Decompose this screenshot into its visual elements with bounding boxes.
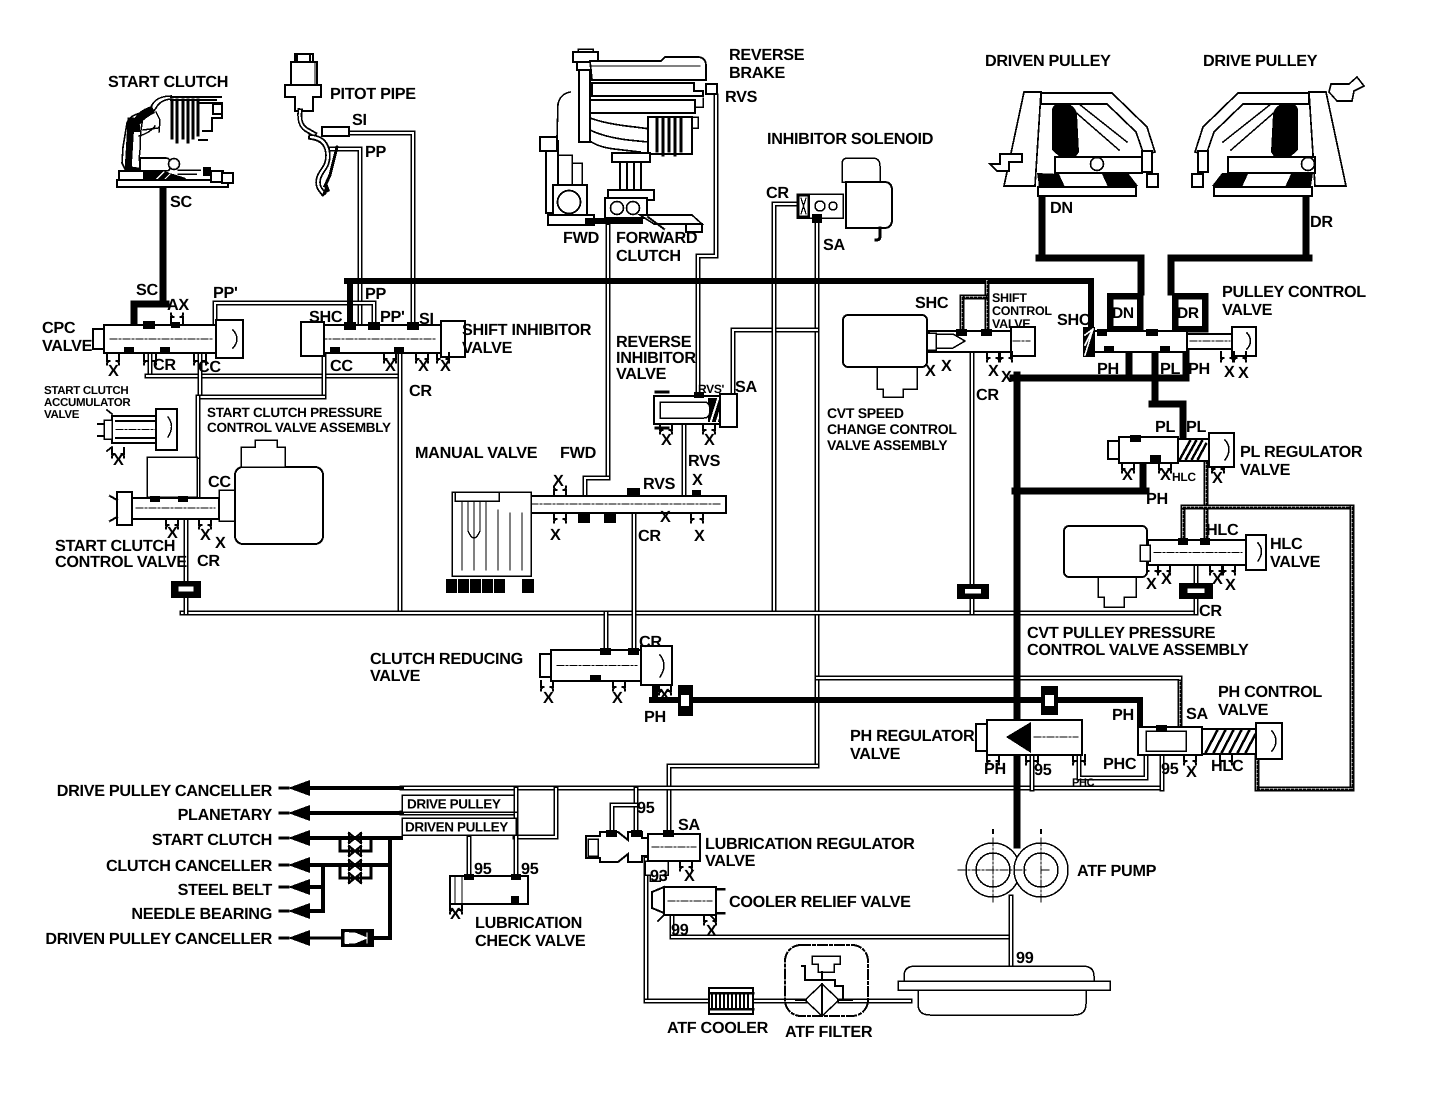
svg-text:SHIFT: SHIFT bbox=[992, 291, 1027, 305]
svg-text:CVT PULLEY PRESSURE: CVT PULLEY PRESSURE bbox=[1027, 624, 1216, 642]
svg-text:X: X bbox=[1225, 576, 1236, 594]
valve CPC valve bbox=[93, 314, 243, 365]
svg-text:PLANETARY: PLANETARY bbox=[178, 806, 273, 824]
svg-text:SA: SA bbox=[678, 816, 700, 834]
svg-text:HLC: HLC bbox=[1270, 535, 1303, 553]
svg-text:SA: SA bbox=[1186, 705, 1208, 723]
svg-text:MANUAL VALVE: MANUAL VALVE bbox=[415, 444, 538, 462]
pipe CR from start clutch control valve bbox=[183, 519, 188, 581]
svg-text:VALVE: VALVE bbox=[1218, 701, 1269, 719]
svg-text:X: X bbox=[553, 472, 564, 490]
svg-text:PH REGULATOR: PH REGULATOR bbox=[850, 727, 975, 745]
pipe HLC right side down bbox=[1349, 507, 1354, 789]
svg-text:RVS: RVS bbox=[725, 88, 758, 106]
svg-text:PH: PH bbox=[984, 760, 1006, 778]
pipe PL thick down bbox=[1152, 352, 1159, 404]
valve shift control valve bbox=[929, 327, 1035, 362]
svg-text:CR: CR bbox=[638, 527, 661, 545]
svg-text:VALVE: VALVE bbox=[850, 745, 901, 763]
pipe SA branch to PH control valve bbox=[817, 678, 1180, 725]
svg-text:X: X bbox=[692, 471, 703, 489]
component PITOT PIPE drawing bbox=[285, 54, 349, 195]
pipe DR to pulley control valve bbox=[1171, 258, 1309, 292]
hatched section PL regulator valve bbox=[1178, 433, 1234, 467]
svg-text:ATF COOLER: ATF COOLER bbox=[667, 1019, 769, 1037]
pipe PL jog into PL regulator valve bbox=[1152, 404, 1183, 437]
pipe SC elbow into CPC valve bbox=[134, 304, 166, 322]
svg-text:NEEDLE BEARING: NEEDLE BEARING bbox=[131, 905, 272, 923]
pipe ATF cooler to ATF filter bbox=[752, 998, 806, 1003]
valve LUBRICATION CHECK VALVE bbox=[450, 874, 528, 904]
pipe SHC branch bbox=[962, 294, 985, 299]
component ATF COOLER bbox=[709, 988, 753, 1014]
arrow line DRIVEN PULLEY CANCELLER bbox=[280, 930, 341, 946]
boxed label DRIVEN PULLEY bbox=[402, 818, 516, 835]
svg-text:START CLUTCH: START CLUTCH bbox=[44, 385, 128, 397]
svg-text:CC: CC bbox=[208, 473, 231, 491]
component ATF FILTER bbox=[785, 945, 868, 1016]
svg-text:X: X bbox=[704, 431, 715, 449]
pipe CC down bbox=[195, 397, 200, 460]
svg-text:DRIVE PULLEY: DRIVE PULLEY bbox=[407, 797, 501, 812]
svg-text:START CLUTCH: START CLUTCH bbox=[108, 73, 228, 91]
svg-text:CR: CR bbox=[1199, 602, 1222, 620]
svg-text:VALVE ASSEMBLY: VALVE ASSEMBLY bbox=[827, 437, 948, 453]
svg-text:VALVE: VALVE bbox=[616, 365, 667, 383]
solenoid CVT speed change control bbox=[843, 315, 936, 397]
pipe CR from shift control valve bbox=[969, 352, 974, 584]
svg-text:DR: DR bbox=[1310, 213, 1333, 231]
svg-text:X: X bbox=[925, 362, 936, 380]
svg-text:PL: PL bbox=[1186, 418, 1206, 436]
pipe PH thick bus bbox=[1013, 375, 1186, 382]
pipe SA to lubrication regulator valve bbox=[669, 766, 817, 830]
pipe 99 horizontal run bbox=[672, 934, 1010, 939]
svg-text:X: X bbox=[1001, 368, 1012, 386]
svg-text:VALVE: VALVE bbox=[705, 852, 756, 870]
svg-text:X: X bbox=[1224, 363, 1235, 381]
svg-text:LUBRICATION REGULATOR: LUBRICATION REGULATOR bbox=[705, 835, 915, 853]
node DR box bbox=[1175, 296, 1205, 329]
orifice CR shift control valve bbox=[957, 584, 989, 599]
component ATF strainer and oil pan bbox=[898, 966, 1110, 1015]
svg-text:X: X bbox=[113, 451, 124, 469]
component START CLUTCH sectional drawing bbox=[117, 96, 233, 187]
pipe 93 cooler feed down bbox=[643, 859, 648, 1001]
svg-text:93: 93 bbox=[650, 867, 668, 885]
solenoid HLC valve bbox=[1064, 526, 1150, 607]
svg-text:X: X bbox=[550, 526, 561, 544]
pipe PH horizontal to main vertical bbox=[1015, 488, 1146, 495]
svg-text:PL: PL bbox=[1160, 360, 1180, 378]
pipe CC into start clutch control valve bbox=[147, 460, 152, 492]
svg-text:DRIVEN PULLEY: DRIVEN PULLEY bbox=[405, 820, 508, 835]
pipe to ATF cooler bbox=[646, 998, 709, 1003]
svg-text:RVS': RVS' bbox=[698, 382, 725, 396]
svg-text:CLUTCH REDUCING: CLUTCH REDUCING bbox=[370, 650, 523, 668]
pipe SI from pitot pipe to shift inhibitor valve bbox=[349, 133, 413, 329]
pipe CR below orifice to bus bbox=[1193, 599, 1198, 613]
svg-text:FWD: FWD bbox=[560, 444, 597, 462]
svg-text:PP: PP bbox=[365, 143, 386, 161]
svg-text:PP': PP' bbox=[213, 284, 238, 302]
svg-text:95: 95 bbox=[1161, 760, 1179, 778]
pipe RVS reverse inhibitor valve to manual valve bbox=[681, 424, 686, 494]
pipe 95 to lubrication regulator valve bbox=[633, 789, 638, 830]
svg-text:CR: CR bbox=[639, 633, 662, 651]
svg-text:CR: CR bbox=[409, 382, 432, 400]
svg-text:ACCUMULATOR: ACCUMULATOR bbox=[44, 397, 131, 409]
arrow line CLUTCH CANCELLER bbox=[280, 857, 390, 873]
pipe PH into PH regulator area bbox=[1137, 700, 1143, 727]
svg-text:LUBRICATION: LUBRICATION bbox=[475, 914, 582, 932]
svg-text:B: B bbox=[460, 582, 468, 594]
svg-text:CR: CR bbox=[976, 386, 999, 404]
pipe CC into start clutch control valve right bbox=[195, 460, 200, 497]
pipe PH thick bottom run bbox=[652, 697, 1140, 703]
svg-text:99: 99 bbox=[671, 921, 689, 939]
svg-text:CONTROL: CONTROL bbox=[992, 304, 1052, 318]
svg-text:ATF FILTER: ATF FILTER bbox=[785, 1023, 873, 1041]
pipe PH drop left bbox=[1126, 352, 1133, 377]
wire steel belt / needle bearing junction bbox=[321, 865, 325, 911]
svg-text:95: 95 bbox=[637, 799, 655, 817]
svg-text:X: X bbox=[543, 689, 554, 707]
pipe planetary line merge bbox=[402, 789, 516, 813]
svg-text:VALVE: VALVE bbox=[370, 667, 421, 685]
svg-text:95: 95 bbox=[521, 860, 539, 878]
component FORWARD CLUTCH / REVERSE BRAKE sectional drawing bbox=[540, 49, 717, 232]
svg-text:PH: PH bbox=[1097, 360, 1119, 378]
svg-text:PHC: PHC bbox=[1103, 755, 1137, 773]
svg-text:VALVE: VALVE bbox=[42, 337, 93, 355]
svg-text:X: X bbox=[659, 686, 670, 704]
wire check valve to vertical bbox=[373, 936, 390, 940]
svg-text:START CLUTCH: START CLUTCH bbox=[152, 831, 272, 849]
pipe PH from PL regulator valve bbox=[1140, 461, 1147, 491]
svg-text:CC: CC bbox=[198, 358, 221, 376]
pipe CR bus upper bbox=[147, 373, 400, 378]
svg-text:P: P bbox=[525, 582, 532, 594]
svg-text:SC: SC bbox=[136, 281, 158, 299]
check valve DRIVEN PULLEY CANCELLER bbox=[341, 929, 374, 947]
svg-text:DR: DR bbox=[1177, 305, 1199, 322]
orifice on PH line at clutch reducing valve bbox=[678, 685, 693, 716]
svg-text:RVS: RVS bbox=[643, 475, 676, 493]
component INHIBITOR SOLENOID bbox=[797, 158, 892, 240]
pipe 95 to lubrication check valve right bbox=[513, 814, 518, 876]
svg-text:STEEL BELT: STEEL BELT bbox=[178, 881, 273, 899]
pipe CR bus to clutch reducing valve bbox=[603, 613, 608, 650]
svg-text:FORWARD: FORWARD bbox=[616, 229, 698, 247]
pipe FWD elbow into manual valve bbox=[585, 478, 608, 494]
svg-text:X: X bbox=[1186, 763, 1197, 781]
svg-text:PH: PH bbox=[644, 708, 666, 726]
svg-text:COOLER RELIEF VALVE: COOLER RELIEF VALVE bbox=[729, 893, 911, 911]
arrow line START CLUTCH bbox=[280, 830, 401, 846]
svg-text:ATF PUMP: ATF PUMP bbox=[1077, 862, 1157, 880]
solenoid START CLUTCH PRESSURE CONTROL VALVE ASSEMBLY bbox=[219, 440, 323, 544]
pipe PP from pitot pipe down bbox=[331, 149, 360, 329]
pipe start clutch line merge bbox=[515, 789, 556, 837]
pipe CC horizontal run bbox=[198, 394, 324, 399]
svg-text:PH: PH bbox=[1146, 490, 1168, 508]
svg-text:X: X bbox=[108, 362, 119, 380]
boxed label DRIVE PULLEY bbox=[402, 795, 514, 812]
svg-text:X: X bbox=[1212, 570, 1223, 588]
svg-text:X: X bbox=[418, 357, 429, 375]
pipe SA main vertical from inhibitor solenoid bbox=[814, 222, 819, 766]
component DRIVE PULLEY drawing bbox=[1192, 77, 1364, 196]
valve PH REGULATOR VALVE bbox=[976, 720, 1085, 765]
svg-text:INHIBITOR SOLENOID: INHIBITOR SOLENOID bbox=[767, 130, 934, 148]
svg-text:PL: PL bbox=[1155, 418, 1175, 436]
svg-text:PHC: PHC bbox=[1072, 777, 1095, 789]
svg-text:CHANGE CONTROL: CHANGE CONTROL bbox=[827, 421, 957, 437]
valve COOLER RELIEF VALVE bbox=[652, 887, 724, 921]
hatched cap SHC on pulley control valve bbox=[1083, 327, 1095, 357]
svg-text:VALVE: VALVE bbox=[1222, 301, 1273, 319]
pipe 95 riser to PH regulator valve bbox=[1029, 757, 1034, 789]
pipe ATF pump suction bbox=[1008, 897, 1013, 981]
valve START CLUTCH CONTROL VALVE bbox=[110, 457, 219, 525]
svg-text:X: X bbox=[1146, 575, 1157, 593]
svg-text:SHC: SHC bbox=[309, 308, 343, 326]
svg-text:DRIVEN PULLEY CANCELLER: DRIVEN PULLEY CANCELLER bbox=[45, 930, 272, 948]
svg-text:CC: CC bbox=[330, 357, 353, 375]
arrow line DRIVE PULLEY CANCELLER bbox=[280, 780, 402, 796]
manual valve position boxes L B D N R P bbox=[446, 579, 457, 594]
svg-text:CONTROL VALVE: CONTROL VALVE bbox=[55, 553, 187, 571]
svg-text:VALVE: VALVE bbox=[1270, 553, 1321, 571]
svg-text:X: X bbox=[660, 508, 671, 526]
svg-text:DN: DN bbox=[1050, 199, 1073, 217]
pipe CR from inhibitor solenoid down bbox=[774, 204, 797, 611]
svg-text:SC: SC bbox=[170, 193, 192, 211]
pipe ATF filter to strainer bbox=[840, 998, 910, 1003]
pipe CC from shift inhibitor valve down bbox=[321, 353, 326, 397]
pipe 95 lubrication bus bbox=[402, 785, 1162, 790]
pipe HLC riser to PH control valve bbox=[1254, 755, 1259, 789]
pipe DN thick from driven pulley bbox=[1039, 184, 1046, 258]
svg-text:95: 95 bbox=[1034, 761, 1052, 779]
pipe CC from CPC valve down bbox=[197, 353, 202, 397]
svg-text:VALVE: VALVE bbox=[462, 339, 513, 357]
svg-text:PULLEY CONTROL: PULLEY CONTROL bbox=[1222, 283, 1366, 301]
orifice on PH line mid bbox=[1041, 686, 1058, 715]
svg-text:X: X bbox=[1212, 469, 1223, 487]
svg-text:X: X bbox=[706, 922, 717, 940]
pipe FWD from forward clutch down bbox=[605, 226, 610, 478]
svg-text:FWD: FWD bbox=[563, 229, 600, 247]
arrow line NEEDLE BEARING bbox=[280, 903, 323, 919]
svg-text:CVT SPEED: CVT SPEED bbox=[827, 405, 904, 421]
pipe CC elbow bbox=[150, 457, 198, 462]
svg-text:CLUTCH CANCELLER: CLUTCH CANCELLER bbox=[106, 857, 273, 875]
pipe SC thick from start clutch bbox=[160, 184, 167, 301]
svg-text:SHC: SHC bbox=[915, 294, 949, 312]
svg-text:RVS: RVS bbox=[688, 452, 721, 470]
svg-text:X: X bbox=[385, 357, 396, 375]
svg-text:99: 99 bbox=[1016, 949, 1034, 967]
svg-text:X: X bbox=[200, 526, 211, 544]
svg-text:95: 95 bbox=[474, 860, 492, 878]
pipe 95 riser to PH control valve bbox=[1159, 757, 1164, 789]
svg-text:X: X bbox=[215, 534, 226, 552]
orifice CR HLC valve bbox=[1179, 583, 1213, 599]
svg-text:X: X bbox=[1161, 570, 1172, 588]
svg-text:X: X bbox=[988, 362, 999, 380]
svg-text:SHIFT INHIBITOR: SHIFT INHIBITOR bbox=[462, 321, 592, 339]
valve PULLEY CONTROL VALVE bbox=[1094, 327, 1256, 362]
check valve loop on START CLUTCH line bbox=[340, 833, 371, 856]
pipe CR manual valve to clutch reducing valve bbox=[631, 512, 636, 650]
pipe 99 from cooler relief valve bbox=[669, 913, 674, 937]
svg-text:SA: SA bbox=[735, 378, 757, 396]
svg-text:PITOT PIPE: PITOT PIPE bbox=[330, 85, 416, 103]
svg-text:HLC: HLC bbox=[1172, 470, 1196, 484]
pipe SA branch to reverse inhibitor valve bbox=[733, 330, 817, 396]
svg-text:D: D bbox=[472, 582, 480, 594]
valve CLUTCH REDUCING VALVE bbox=[540, 646, 672, 695]
svg-text:X: X bbox=[941, 357, 952, 375]
svg-text:DRIVE PULLEY: DRIVE PULLEY bbox=[1203, 52, 1318, 70]
svg-text:HLC: HLC bbox=[1211, 757, 1244, 775]
pipe SHC bus to pulley control valve bbox=[347, 281, 1091, 329]
svg-text:X: X bbox=[440, 357, 451, 375]
svg-text:CR: CR bbox=[153, 356, 176, 374]
pipe HLC PL regulator valve to HLC valve bbox=[1203, 461, 1208, 542]
pipe PH drop right bbox=[1183, 352, 1190, 377]
orifice CR start clutch control valve bbox=[171, 581, 201, 598]
svg-text:VALVE: VALVE bbox=[44, 409, 80, 421]
svg-text:CONTROL VALVE ASSEMBLY: CONTROL VALVE ASSEMBLY bbox=[207, 420, 391, 435]
svg-text:X: X bbox=[612, 689, 623, 707]
valve PH CONTROL VALVE bbox=[1138, 725, 1232, 765]
component DRIVEN PULLEY drawing bbox=[990, 92, 1158, 196]
valve PL REGULATOR VALVE bbox=[1108, 435, 1224, 473]
manual valve ports bbox=[554, 487, 703, 523]
svg-text:PH: PH bbox=[1112, 706, 1134, 724]
pipe CR below orifice to bus bbox=[969, 599, 974, 613]
pipe CR from HLC valve bbox=[1193, 565, 1198, 583]
svg-text:DRIVE PULLEY CANCELLER: DRIVE PULLEY CANCELLER bbox=[57, 782, 273, 800]
pipe CR from CPC valve down bbox=[147, 353, 152, 374]
pipe PH long vertical to ATF pump bbox=[1014, 375, 1021, 845]
pipe PH from clutch reducing valve bbox=[652, 681, 658, 700]
svg-text:REVERSE: REVERSE bbox=[729, 46, 805, 64]
svg-text:PH: PH bbox=[1188, 360, 1210, 378]
svg-text:CHECK VALVE: CHECK VALVE bbox=[475, 932, 586, 950]
svg-text:SHC: SHC bbox=[1057, 311, 1091, 329]
svg-text:CR: CR bbox=[766, 184, 789, 202]
svg-text:X: X bbox=[450, 905, 461, 923]
svg-text:CPC: CPC bbox=[42, 319, 76, 337]
pipe PP' CPC valve to shift inhibitor valve bbox=[215, 303, 374, 329]
pipe HLC horizontal bbox=[1183, 504, 1352, 509]
svg-text:X: X bbox=[1238, 364, 1249, 382]
pipe DN to pulley control valve bbox=[1039, 258, 1141, 292]
hatched section PH CONTROL VALVE bbox=[1202, 723, 1282, 759]
pipe SA hatched into PH control valve bbox=[1177, 682, 1182, 725]
pipe 95 to lubrication check valve left bbox=[466, 838, 471, 876]
pipe SHC from shift inhibitor valve up bbox=[347, 281, 353, 329]
svg-text:N: N bbox=[484, 582, 492, 594]
svg-text:DN: DN bbox=[1112, 305, 1134, 322]
svg-text:PH CONTROL: PH CONTROL bbox=[1218, 683, 1322, 701]
svg-text:R: R bbox=[496, 582, 504, 594]
pipe RVS from reverse brake down to reverse inhibitor valve bbox=[698, 96, 716, 396]
svg-text:START CLUTCH PRESSURE: START CLUTCH PRESSURE bbox=[207, 405, 382, 420]
svg-text:X: X bbox=[661, 431, 672, 449]
pipe SHC into shift control valve left port bbox=[959, 297, 964, 331]
arrow line PLANETARY bbox=[280, 805, 402, 821]
svg-text:DRIVEN PULLEY: DRIVEN PULLEY bbox=[985, 52, 1111, 70]
check valve loop on CLUTCH CANCELLER line bbox=[340, 860, 371, 883]
valve MANUAL VALVE bbox=[452, 488, 726, 576]
svg-text:X: X bbox=[694, 527, 705, 545]
pipe SHC into shift control valve bbox=[984, 281, 989, 331]
pipe CR main bus bbox=[182, 610, 1196, 615]
valve HLC VALVE bbox=[1146, 535, 1266, 575]
svg-text:X: X bbox=[1122, 466, 1133, 484]
svg-text:VALVE: VALVE bbox=[992, 317, 1030, 331]
pipe PHC loop bbox=[1079, 753, 1146, 778]
svg-text:SI: SI bbox=[419, 310, 434, 328]
pipe HLC bottom run bbox=[1257, 786, 1352, 791]
svg-text:PP: PP bbox=[365, 285, 386, 303]
svg-text:CLUTCH: CLUTCH bbox=[616, 247, 681, 265]
svg-text:L: L bbox=[448, 582, 455, 594]
svg-text:CR: CR bbox=[197, 552, 220, 570]
valve shift inhibitor valve bbox=[301, 321, 465, 363]
svg-text:VALVE: VALVE bbox=[1240, 461, 1291, 479]
node DN box bbox=[1110, 296, 1140, 329]
valve LUBRICATION REGULATOR VALVE bbox=[586, 830, 700, 881]
svg-text:AX: AX bbox=[167, 296, 189, 314]
svg-text:X: X bbox=[684, 867, 695, 885]
svg-text:BRAKE: BRAKE bbox=[729, 64, 786, 82]
svg-text:SI: SI bbox=[352, 111, 367, 129]
valve reverse inhibitor valve bbox=[654, 392, 737, 434]
pipe HLC down to HLC valve bbox=[1180, 507, 1185, 542]
svg-text:PL REGULATOR: PL REGULATOR bbox=[1240, 443, 1363, 461]
svg-text:PP': PP' bbox=[380, 308, 405, 326]
svg-text:CONTROL VALVE ASSEMBLY: CONTROL VALVE ASSEMBLY bbox=[1027, 641, 1249, 659]
svg-text:HLC: HLC bbox=[1206, 521, 1239, 539]
pipe CR below orifice bbox=[183, 598, 188, 613]
arrow line STEEL BELT bbox=[280, 879, 323, 895]
pipe 95 elbow to lubrication regulator valve bbox=[612, 805, 636, 830]
component ATF PUMP bbox=[958, 830, 1068, 902]
pipe DR thick from drive pulley bbox=[1303, 184, 1310, 258]
svg-text:SA: SA bbox=[823, 236, 845, 254]
vertical start clutch to canceller check valve bbox=[388, 838, 392, 938]
pipe CR from shift inhibitor valve down to CR bus bbox=[397, 353, 402, 611]
valve START CLUTCH ACCUMULATOR VALVE bbox=[98, 409, 177, 451]
svg-text:X: X bbox=[1160, 466, 1171, 484]
